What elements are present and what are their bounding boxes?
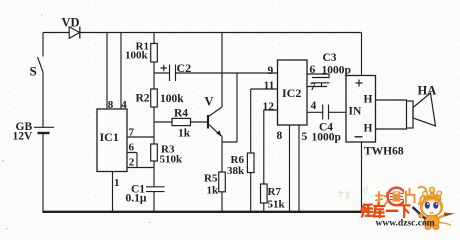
svg-text:C3: C3 [323,52,337,64]
svg-text:8: 8 [108,99,114,111]
svg-text:1k: 1k [178,128,191,140]
svg-text:H: H [364,94,373,106]
svg-text:R5: R5 [204,173,218,185]
svg-text:0.1μ: 0.1μ [126,193,147,205]
svg-text:1: 1 [114,177,120,189]
svg-text:5: 5 [302,131,308,143]
svg-text:11: 11 [264,80,275,92]
svg-text:IC1: IC1 [100,130,119,144]
svg-text:4: 4 [311,100,317,112]
svg-text:6: 6 [129,142,135,154]
svg-text:100k: 100k [125,50,149,62]
svg-text:12V: 12V [13,131,34,143]
svg-text:1000p: 1000p [312,132,341,144]
svg-text:38k: 38k [227,165,245,177]
svg-text:IN: IN [349,106,362,118]
svg-text:1000p: 1000p [322,65,351,77]
svg-text:1k: 1k [207,185,220,197]
svg-text:51k: 51k [268,199,286,211]
svg-text:H: H [364,123,373,135]
svg-text:R2: R2 [136,93,150,105]
svg-text:HA: HA [418,84,437,98]
svg-text:4: 4 [121,99,127,111]
svg-text:12: 12 [263,101,275,113]
svg-text:100k: 100k [160,93,184,105]
svg-text:9: 9 [268,65,274,77]
svg-text:TWH68: TWH68 [364,146,404,158]
svg-text:C2: C2 [177,61,192,75]
svg-text:6: 6 [310,64,316,76]
svg-text:7: 7 [129,127,135,139]
svg-text:R7: R7 [268,186,282,198]
svg-text:7: 7 [310,81,316,93]
svg-text:8: 8 [277,130,283,142]
svg-text:VD: VD [62,16,80,30]
svg-text:R4: R4 [174,108,188,120]
svg-text:510k: 510k [160,154,184,166]
svg-text:S: S [30,64,37,79]
svg-text:www.dzsc.com: www.dzsc.com [376,219,435,229]
svg-text:2: 2 [129,157,135,169]
svg-text:IC2: IC2 [282,86,301,100]
svg-text:V: V [205,95,214,109]
